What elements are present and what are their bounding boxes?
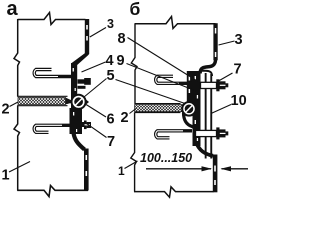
lower hook (fig a): outlined hairpin mirrored: [34, 125, 71, 132]
leader 7 (fig b): [219, 73, 233, 81]
edge curve from clamp down to lower bar (fig b): [197, 143, 214, 156]
leader 5 left: [84, 79, 107, 98]
svg-text:7: 7: [234, 62, 242, 78]
svg-text:1: 1: [118, 164, 125, 178]
panel a: bottom edge with break: [17, 186, 88, 197]
panel b upper: top edge with break: [135, 17, 216, 29]
svg-text:100...150: 100...150: [140, 151, 192, 165]
svg-text:б: б: [130, 0, 141, 19]
gasket taper into clamp (fig a): [66, 98, 73, 105]
leader 9: [127, 64, 197, 92]
leader 7 (fig a): [87, 124, 107, 138]
panel a upper: top edge with break: [18, 13, 86, 25]
dark wedge right of screw (fig a): [85, 99, 89, 106]
upper bolt (fig b): washer, nut, tip: [216, 79, 219, 91]
svg-text:2: 2: [121, 110, 129, 126]
panel a upper: left edge with break: [14, 19, 20, 97]
svg-text:2: 2: [2, 102, 10, 118]
J-bracket from screw down to clamp (fig b): [184, 113, 197, 128]
leader 10: [211, 105, 231, 114]
cover strip 10 (vertical channel, fig b): [200, 71, 212, 76]
panel b: bottom edge with break: [134, 187, 214, 197]
leader 3 (fig a): [90, 28, 106, 38]
lower bolt (fig b): washer, nut, tip: [216, 127, 219, 139]
gasket 2 (fig b) hatched strip: [135, 105, 183, 112]
panel b upper right edge bar (thick, with white dashes): [213, 23, 217, 60]
screw with round head (fig a): [72, 95, 86, 109]
panel b lower: left edge with break: [131, 113, 137, 192]
upper bolt (fig a): [78, 79, 85, 83]
lower bolt (fig b): shaft: [196, 130, 217, 136]
leader 6: [85, 104, 107, 118]
leader 8: [128, 38, 199, 82]
upper bolt (fig b): shaft: [201, 82, 217, 88]
panel b lower: top edge: [134, 112, 180, 114]
svg-text:3: 3: [107, 17, 114, 31]
panel a lower: left edge with break: [14, 106, 20, 191]
dimension line with left arrow: [222, 168, 249, 170]
panel a edge diagonal jog down to clamp: [71, 53, 89, 65]
panel b upper: left edge with break: [131, 23, 137, 103]
panel b upper: bottom edge: [134, 103, 180, 105]
svg-text:9: 9: [117, 53, 125, 69]
leader 1 (fig a): [9, 162, 30, 173]
panel b lower right edge bar (thick, with white dashes): [213, 155, 218, 193]
svg-text:7: 7: [107, 134, 115, 150]
svg-text:а: а: [7, 0, 19, 20]
svg-text:4: 4: [106, 53, 114, 69]
upper hook (fig b): outlined hairpin: [156, 76, 192, 83]
panel b edge bar behind clamp (white dashes): [187, 71, 193, 104]
clamp column at joint (fig a): [71, 63, 77, 134]
panel a lower right edge bar (thick, with white dashes): [84, 149, 89, 191]
svg-text:5: 5: [107, 68, 115, 84]
edge curve from clamp down to lower bar (fig a): [74, 133, 85, 150]
svg-text:8: 8: [118, 31, 126, 47]
leader 1 (fig b): [125, 161, 138, 169]
panel b edge S-jog down-left to clamp: [200, 59, 216, 74]
lower bolt (fig a): [70, 108, 83, 134]
svg-text:10: 10: [231, 93, 247, 109]
dimension line with right arrow: [146, 168, 211, 170]
panel a upper right edge bar (thick, with white dashes): [85, 19, 89, 54]
gasket 2 (fig a) hatched strip: [18, 98, 66, 105]
clamp column at joint (fig b): [193, 71, 201, 146]
svg-text:6: 6: [107, 112, 115, 128]
leader 2 (fig b): [130, 109, 137, 114]
loop (upper hook, fig a): outlined hairpin: [34, 70, 71, 77]
svg-text:1: 1: [2, 168, 10, 184]
lower hook (fig b): outlined hairpin mirrored: [156, 131, 192, 138]
leader 5 right: [116, 80, 186, 104]
svg-text:3: 3: [235, 32, 243, 48]
leader 3 (fig b): [219, 41, 235, 45]
panel a upper: bottom edge: [17, 95, 67, 97]
leader 2 (fig a): [10, 102, 19, 107]
panel a lower: top edge: [17, 105, 67, 107]
gasket taper into clamp (fig b): [182, 105, 187, 112]
leader 4: [82, 62, 106, 72]
screw with round head (fig b): [182, 102, 196, 116]
